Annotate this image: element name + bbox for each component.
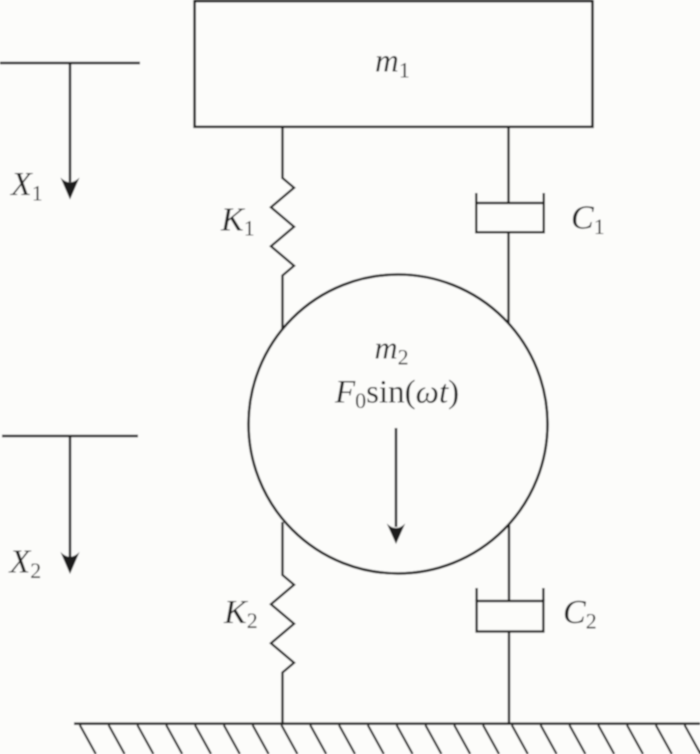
datum line X2	[2, 435, 138, 437]
force arrowhead	[387, 524, 405, 545]
arrowhead X1	[61, 178, 80, 200]
damper C2 right prong	[542, 588, 544, 601]
spring K2	[271, 522, 294, 724]
damper C1 rod top	[507, 127, 509, 203]
mass m1 box	[195, 1, 593, 127]
damper C1 left prong	[475, 193, 477, 203]
damper C1 rod bottom	[507, 232, 509, 324]
damper C2 rod bottom	[508, 632, 510, 725]
mass m2 circle	[249, 275, 548, 574]
arrowhead X2	[61, 552, 80, 574]
svg-text:F0sin(ωt): F0sin(ωt)	[334, 375, 459, 414]
ground line	[74, 722, 700, 725]
arrow shaft X1	[69, 63, 72, 182]
datum line X1	[0, 62, 140, 64]
damper C2 cylinder box	[477, 601, 544, 632]
arrow shaft X2	[69, 436, 72, 557]
damper C1 cylinder box	[476, 203, 543, 232]
ground hatching	[80, 725, 700, 754]
force arrow shaft	[395, 428, 398, 527]
damper C2 left prong	[475, 588, 477, 601]
damper C1 right prong	[543, 193, 545, 203]
damper C2 rod top	[508, 525, 510, 601]
spring K1	[271, 127, 294, 330]
